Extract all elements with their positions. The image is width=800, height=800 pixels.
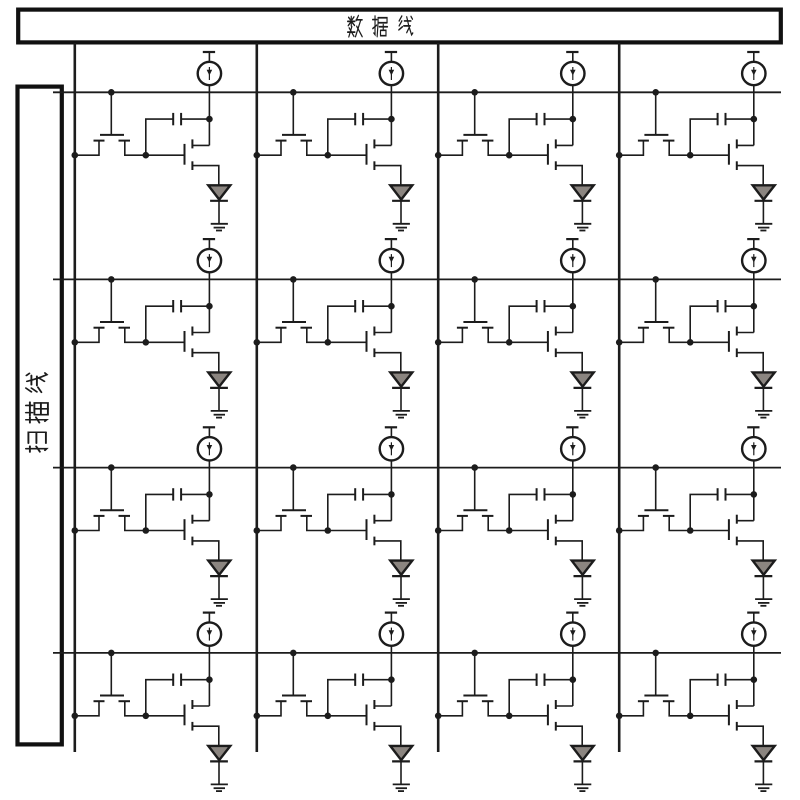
capacitor Cs (cell 2,4) (690, 300, 754, 342)
transistor T2 driver (cell 4,2) (328, 700, 401, 746)
junction: T1 on data line (cell 1,4) (616, 152, 623, 159)
transistor T2 driver (cell 3,3) (509, 515, 582, 561)
current source I21 (198, 239, 221, 272)
junction: T1 gate on scan line (cell 2,1) (108, 276, 115, 283)
junction: storage-cap / supply node (cell 1,4) (751, 116, 758, 123)
transistor T2 driver (cell 2,3) (509, 327, 582, 373)
capacitor Cs (cell 2,2) (328, 300, 392, 342)
junction: T1 gate on scan line (cell 4,1) (108, 650, 115, 657)
ground (cell 2,4) (755, 411, 772, 418)
junction: T1 on data line (cell 4,1) (72, 713, 79, 720)
junction: storage-cap / supply node (cell 2,1) (206, 303, 213, 310)
junction: storage-cap / supply node (cell 1,3) (570, 116, 577, 123)
current source I41 (198, 613, 221, 646)
junction: storage node A (cell 2,1) (143, 339, 150, 346)
transistor T1 switch (cell 1,4) (619, 92, 690, 155)
scan bus box (18, 87, 62, 745)
capacitor Cs (cell 1,3) (509, 113, 573, 155)
label: 扫描线 (scan line), rotated (26, 373, 48, 452)
junction: storage node A (cell 4,4) (687, 713, 694, 720)
LED D43 (572, 746, 594, 785)
ground (cell 2,2) (393, 411, 410, 418)
transistor T1 switch (cell 3,3) (438, 468, 509, 531)
LED D44 (753, 746, 775, 785)
junction: T1 on data line (cell 1,3) (435, 152, 442, 159)
junction: T1 gate on scan line (cell 4,2) (290, 650, 297, 657)
junction: T1 on data line (cell 2,1) (72, 339, 79, 346)
junction: storage-cap / supply node (cell 1,2) (388, 116, 395, 123)
transistor T1 switch (cell 1,3) (438, 92, 509, 155)
junction: T1 on data line (cell 4,2) (253, 713, 260, 720)
data line D1 (74, 43, 77, 752)
capacitor Cs (cell 3,3) (509, 488, 573, 530)
junction: storage-cap / supply node (cell 1,1) (206, 116, 213, 123)
wire: current source output (cell 3,4) (753, 461, 755, 521)
junction: storage node A (cell 3,2) (325, 527, 332, 534)
junction: T1 gate on scan line (cell 1,1) (108, 89, 115, 96)
wire: current source output (cell 3,3) (572, 461, 574, 521)
capacitor Cs (cell 1,1) (146, 113, 210, 155)
current source I11 (198, 52, 221, 85)
transistor T2 driver (cell 2,2) (328, 327, 401, 373)
transistor T2 driver (cell 1,2) (328, 139, 401, 185)
LED D13 (572, 185, 594, 224)
ground (cell 3,2) (393, 599, 410, 606)
transistor T1 switch (cell 2,3) (438, 279, 509, 342)
transistor T2 driver (cell 2,1) (146, 327, 219, 373)
scan line S1 (53, 91, 781, 93)
junction: storage node A (cell 4,2) (325, 713, 332, 720)
junction: T1 gate on scan line (cell 2,3) (471, 276, 478, 283)
junction: storage-cap / supply node (cell 2,3) (570, 303, 577, 310)
wire: current source output (cell 4,3) (572, 646, 574, 706)
transistor T1 switch (cell 2,4) (619, 279, 690, 342)
junction: T1 gate on scan line (cell 1,2) (290, 89, 297, 96)
capacitor Cs (cell 2,3) (509, 300, 573, 342)
junction: storage node A (cell 4,3) (506, 713, 513, 720)
junction: storage node A (cell 3,3) (506, 527, 513, 534)
capacitor Cs (cell 2,1) (146, 300, 210, 342)
capacitor Cs (cell 3,2) (328, 488, 392, 530)
junction: storage node A (cell 1,4) (687, 152, 694, 159)
junction: storage node A (cell 3,1) (143, 527, 150, 534)
transistor T1 switch (cell 2,1) (75, 279, 146, 342)
capacitor Cs (cell 1,2) (328, 113, 392, 155)
LED D31 (208, 561, 230, 600)
transistor T2 driver (cell 1,4) (690, 139, 763, 185)
transistor T1 switch (cell 4,2) (257, 653, 328, 716)
current source I44 (742, 613, 765, 646)
junction: storage node A (cell 4,1) (143, 713, 150, 720)
junction: storage-cap / supply node (cell 2,4) (751, 303, 758, 310)
LED D11 (208, 185, 230, 224)
data bus box (18, 10, 781, 43)
wire: current source output (cell 1,4) (753, 85, 755, 145)
data line D2 (255, 43, 258, 752)
transistor T1 switch (cell 3,2) (257, 468, 328, 531)
scan line S2 (53, 278, 781, 280)
transistor T2 driver (cell 3,2) (328, 515, 401, 561)
junction: storage-cap / supply node (cell 3,4) (751, 491, 758, 498)
junction: storage-cap / supply node (cell 3,3) (570, 491, 577, 498)
junction: T1 on data line (cell 4,3) (435, 713, 442, 720)
current source I42 (380, 613, 403, 646)
LED D21 (208, 372, 230, 411)
junction: storage node A (cell 2,3) (506, 339, 513, 346)
junction: storage-cap / supply node (cell 4,4) (751, 676, 758, 683)
junction: storage-cap / supply node (cell 4,2) (388, 676, 395, 683)
wire: current source output (cell 1,1) (208, 85, 210, 145)
junction: T1 gate on scan line (cell 1,4) (652, 89, 659, 96)
scan line S4 (53, 652, 781, 654)
ground (cell 1,1) (211, 224, 228, 231)
ground (cell 2,3) (574, 411, 591, 418)
junction: storage-cap / supply node (cell 3,1) (206, 491, 213, 498)
ground (cell 3,1) (211, 599, 228, 606)
current source I23 (561, 239, 584, 272)
junction: T1 gate on scan line (cell 3,1) (108, 464, 115, 471)
current source I34 (742, 427, 765, 460)
capacitor Cs (cell 3,1) (146, 488, 210, 530)
transistor T1 switch (cell 1,2) (257, 92, 328, 155)
transistor T1 switch (cell 4,3) (438, 653, 509, 716)
wire: current source output (cell 4,1) (208, 646, 210, 706)
capacitor Cs (cell 4,4) (690, 674, 754, 716)
junction: storage-cap / supply node (cell 2,2) (388, 303, 395, 310)
current source I22 (380, 239, 403, 272)
ground (cell 2,1) (211, 411, 228, 418)
scan line S3 (53, 467, 781, 469)
junction: T1 gate on scan line (cell 1,3) (471, 89, 478, 96)
LED D33 (572, 561, 594, 600)
transistor T2 driver (cell 1,3) (509, 139, 582, 185)
wire: current source output (cell 3,1) (208, 461, 210, 521)
junction: storage node A (cell 2,4) (687, 339, 694, 346)
junction: T1 gate on scan line (cell 4,3) (471, 650, 478, 657)
LED D23 (572, 372, 594, 411)
capacitor Cs (cell 4,2) (328, 674, 392, 716)
ground (cell 3,3) (574, 599, 591, 606)
wire: current source output (cell 4,4) (753, 646, 755, 706)
data line D3 (437, 43, 440, 752)
ground (cell 1,3) (574, 224, 591, 231)
current source I32 (380, 427, 403, 460)
LED D41 (208, 746, 230, 785)
junction: T1 on data line (cell 4,4) (616, 713, 623, 720)
current source I14 (742, 52, 765, 85)
transistor T1 switch (cell 3,4) (619, 468, 690, 531)
LED D32 (390, 561, 412, 600)
junction: storage node A (cell 1,1) (143, 152, 150, 159)
transistor T1 switch (cell 2,2) (257, 279, 328, 342)
wire: current source output (cell 2,2) (390, 272, 392, 332)
junction: T1 on data line (cell 2,2) (253, 339, 260, 346)
junction: storage-cap / supply node (cell 4,3) (570, 676, 577, 683)
junction: T1 on data line (cell 2,3) (435, 339, 442, 346)
junction: storage node A (cell 1,3) (506, 152, 513, 159)
transistor T1 switch (cell 1,1) (75, 92, 146, 155)
junction: T1 gate on scan line (cell 3,2) (290, 464, 297, 471)
current source I31 (198, 427, 221, 460)
junction: T1 gate on scan line (cell 3,3) (471, 464, 478, 471)
LED D24 (753, 372, 775, 411)
transistor T2 driver (cell 4,3) (509, 700, 582, 746)
wire: current source output (cell 2,3) (572, 272, 574, 332)
current source I33 (561, 427, 584, 460)
LED D22 (390, 372, 412, 411)
LED D42 (390, 746, 412, 785)
capacitor Cs (cell 4,1) (146, 674, 210, 716)
ground (cell 1,4) (755, 224, 772, 231)
transistor T2 driver (cell 3,4) (690, 515, 763, 561)
ground (cell 4,3) (574, 784, 591, 791)
ground (cell 1,2) (393, 224, 410, 231)
junction: T1 on data line (cell 1,2) (253, 152, 260, 159)
junction: T1 gate on scan line (cell 2,2) (290, 276, 297, 283)
wire: current source output (cell 2,4) (753, 272, 755, 332)
junction: storage node A (cell 1,2) (325, 152, 332, 159)
ground (cell 4,1) (211, 784, 228, 791)
junction: T1 on data line (cell 1,1) (72, 152, 79, 159)
junction: storage node A (cell 3,4) (687, 527, 694, 534)
junction: T1 gate on scan line (cell 2,4) (652, 276, 659, 283)
junction: T1 gate on scan line (cell 4,4) (652, 650, 659, 657)
junction: storage node A (cell 2,2) (325, 339, 332, 346)
junction: T1 gate on scan line (cell 3,4) (652, 464, 659, 471)
junction: storage-cap / supply node (cell 4,1) (206, 676, 213, 683)
capacitor Cs (cell 4,3) (509, 674, 573, 716)
junction: T1 on data line (cell 3,2) (253, 527, 260, 534)
current source I13 (561, 52, 584, 85)
ground (cell 4,2) (393, 784, 410, 791)
transistor T1 switch (cell 3,1) (75, 468, 146, 531)
junction: T1 on data line (cell 3,4) (616, 527, 623, 534)
wire: current source output (cell 1,3) (572, 85, 574, 145)
current source I12 (380, 52, 403, 85)
transistor T2 driver (cell 2,4) (690, 327, 763, 373)
junction: T1 on data line (cell 3,3) (435, 527, 442, 534)
label: 数据线 (data line) (348, 16, 413, 37)
LED D34 (753, 561, 775, 600)
junction: T1 on data line (cell 3,1) (72, 527, 79, 534)
wire: current source output (cell 2,1) (208, 272, 210, 332)
junction: storage-cap / supply node (cell 3,2) (388, 491, 395, 498)
ground (cell 4,4) (755, 784, 772, 791)
transistor T1 switch (cell 4,4) (619, 653, 690, 716)
transistor T1 switch (cell 4,1) (75, 653, 146, 716)
junction: T1 on data line (cell 2,4) (616, 339, 623, 346)
transistor T2 driver (cell 3,1) (146, 515, 219, 561)
wire: current source output (cell 3,2) (390, 461, 392, 521)
wire: current source output (cell 1,2) (390, 85, 392, 145)
LED D12 (390, 185, 412, 224)
capacitor Cs (cell 1,4) (690, 113, 754, 155)
current source I24 (742, 239, 765, 272)
current source I43 (561, 613, 584, 646)
transistor T2 driver (cell 4,1) (146, 700, 219, 746)
data line D4 (618, 43, 621, 752)
ground (cell 3,4) (755, 599, 772, 606)
transistor T2 driver (cell 4,4) (690, 700, 763, 746)
capacitor Cs (cell 3,4) (690, 488, 754, 530)
LED D14 (753, 185, 775, 224)
wire: current source output (cell 4,2) (390, 646, 392, 706)
transistor T2 driver (cell 1,1) (146, 139, 219, 185)
